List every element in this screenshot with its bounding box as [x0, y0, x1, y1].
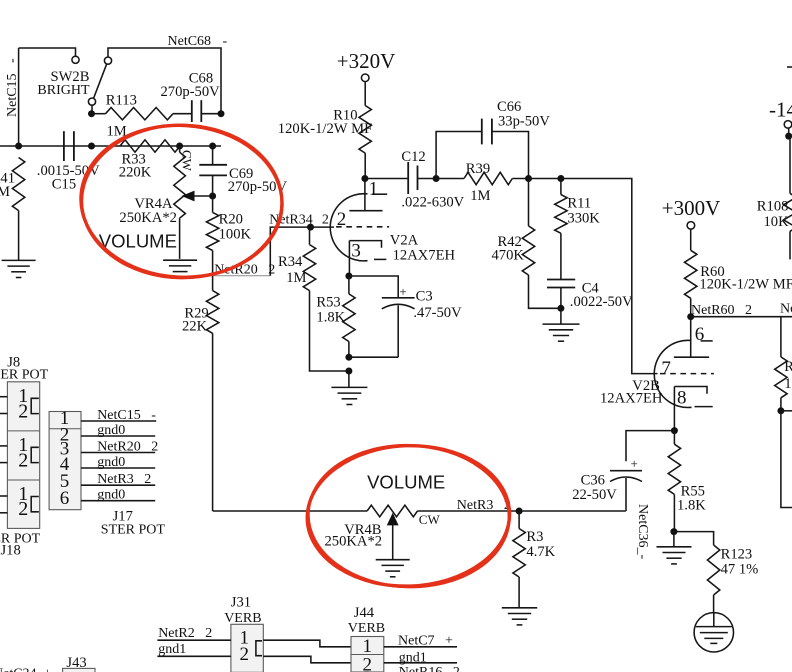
tube V2A plate pin 1: [364, 179, 366, 211]
svg-text:R39: R39: [466, 161, 490, 177]
tube V2A envelope dash top: [372, 193, 387, 195]
ground: [673, 532, 675, 547]
svg-text:.022-630V: .022-630V: [401, 195, 464, 211]
svg-text:.47-50V: .47-50V: [413, 305, 462, 321]
svg-text:33p-50V: 33p-50V: [498, 114, 550, 130]
ground: [163, 259, 197, 261]
J8 pin wires: [0, 396, 7, 398]
svg-text:C3: C3: [416, 288, 433, 304]
J31 pin wires left: [157, 639, 231, 641]
node junction: [557, 305, 564, 312]
svg-text:NetC15 -: NetC15 -: [97, 408, 156, 423]
node junction: [209, 143, 216, 150]
svg-text:NetR3 2: NetR3 2: [97, 472, 151, 487]
svg-text:R113: R113: [106, 93, 137, 109]
svg-text:C12: C12: [401, 149, 425, 165]
resistor R29: [206, 291, 218, 334]
svg-text:+: +: [631, 456, 638, 471]
wire: [91, 105, 93, 114]
svg-text:NetC34 +: NetC34 +: [0, 667, 52, 672]
resistor R123: [674, 532, 714, 545]
J8 pin bracket 1: [31, 398, 39, 413]
tube V2B envelope: [654, 340, 691, 407]
switch SW2B lever: [94, 64, 107, 98]
node junction: [557, 175, 564, 182]
svg-text:R12: R12: [784, 359, 792, 375]
terminal circle: [784, 121, 792, 129]
node junction: [209, 193, 216, 200]
svg-text:6: 6: [695, 324, 705, 345]
svg-text:gnd1: gnd1: [158, 642, 186, 657]
wire: [108, 48, 221, 114]
svg-text:R3: R3: [526, 529, 543, 545]
svg-text:J18: J18: [1, 542, 21, 558]
svg-text:270p-50V: 270p-50V: [161, 84, 221, 100]
node junction: [785, 133, 792, 140]
wire: [529, 178, 561, 180]
svg-text:1.8K: 1.8K: [316, 310, 345, 326]
tube V2A envelope dash bottom: [374, 258, 386, 260]
switch SW2B terminal A: [72, 56, 79, 63]
svg-text:CW: CW: [419, 512, 441, 527]
svg-text:V2A: V2A: [390, 233, 419, 249]
wire: [781, 411, 792, 508]
connector J31 box: [231, 624, 263, 672]
tube V2A envelope: [330, 194, 367, 261]
resistor R53: [348, 276, 350, 294]
tube V2B envelope dash top: [701, 340, 713, 342]
svg-text:R11: R11: [567, 196, 591, 212]
J17 pin wires: [81, 420, 156, 422]
svg-text:470K: 470K: [492, 248, 525, 264]
svg-text:R34: R34: [278, 254, 303, 270]
J44 pin wires right: [384, 646, 457, 648]
svg-text:2: 2: [18, 498, 28, 520]
node junction: [525, 175, 532, 182]
tube V2B grid dashed: [660, 373, 714, 375]
red ellipse around VR4B: [305, 442, 512, 589]
svg-text:NetR2 2: NetR2 2: [158, 626, 212, 641]
node junction: [670, 528, 677, 535]
svg-text:NetR20 2: NetR20 2: [97, 439, 158, 454]
J31 pin wires right: [263, 640, 351, 647]
svg-text:250KA*2: 250KA*2: [119, 210, 177, 226]
resistor R10: [364, 82, 366, 106]
svg-text:220K: 220K: [119, 165, 152, 181]
wire stub: [781, 410, 792, 412]
node junction: [88, 110, 95, 117]
node junction: [15, 143, 22, 150]
potentiometer VR4A body: [174, 152, 186, 218]
svg-text:10: 10: [784, 376, 792, 392]
ground: [376, 559, 410, 561]
wire: [18, 48, 20, 146]
capacitor C3: [349, 276, 398, 298]
svg-text:C15: C15: [52, 176, 76, 192]
ground: [348, 371, 350, 387]
svg-text:NetC68: NetC68: [168, 34, 212, 49]
capacitor C12: [407, 162, 409, 194]
svg-text:NetC7 +: NetC7 +: [398, 634, 453, 649]
node junction: [777, 407, 784, 414]
wire stub top right: [787, 66, 792, 68]
ground: [502, 607, 537, 609]
node junction: [433, 175, 440, 182]
switch SW2B wiper terminal: [88, 98, 95, 105]
node junction: [345, 368, 352, 375]
capacitor C4: [547, 279, 575, 281]
svg-text:2: 2: [18, 400, 28, 422]
connector J17 box: [49, 412, 81, 510]
capacitor C66: [481, 119, 483, 145]
svg-text:100K: 100K: [219, 226, 252, 242]
svg-text:gnd0: gnd0: [97, 488, 125, 503]
resistor R60: [690, 229, 692, 250]
wire cathode: [673, 387, 675, 431]
capacitor C36: [610, 470, 642, 472]
node junction: [345, 273, 352, 280]
svg-text:6: 6: [60, 488, 70, 509]
wire to V2A grid: [270, 227, 310, 276]
svg-text:BRIGHT: BRIGHT: [37, 83, 90, 98]
svg-text:-: -: [223, 34, 228, 49]
resistor R108: [788, 128, 790, 136]
node junction: [671, 427, 678, 434]
svg-text:22K: 22K: [182, 319, 208, 335]
svg-text:1M: 1M: [286, 270, 306, 286]
svg-text:NetR16 2: NetR16 2: [399, 665, 460, 672]
wire net stub gray: [213, 275, 270, 277]
resistor R113: [92, 113, 106, 115]
tube V2A grid dashed: [336, 226, 389, 228]
svg-text:3: 3: [362, 668, 372, 672]
svg-text:2: 2: [337, 209, 347, 230]
node junction: [516, 508, 523, 515]
svg-text:2: 2: [18, 449, 28, 471]
node junction: [218, 110, 225, 117]
svg-text:47 1%: 47 1%: [721, 561, 759, 577]
svg-text:.0022-50V: .0022-50V: [570, 294, 633, 310]
svg-text:12AX7EH: 12AX7EH: [393, 248, 456, 264]
capacitor C68: [191, 100, 193, 122]
svg-text:NetC36_-: NetC36_-: [635, 504, 650, 560]
node junction: [687, 313, 694, 320]
capacitor C69: [212, 146, 214, 165]
wire main input: [0, 145, 221, 147]
svg-text:R53: R53: [316, 294, 340, 310]
connector J8 box: [7, 382, 39, 529]
J8 pin bracket 2: [31, 447, 39, 462]
resistor R41: [12, 158, 24, 211]
terminal circle: [687, 222, 695, 230]
svg-text:NetC15 -: NetC15 -: [5, 58, 20, 117]
svg-text:4.7K: 4.7K: [526, 544, 555, 560]
svg-text:1.8K: 1.8K: [677, 498, 706, 514]
resistor R1xx right edge: [780, 317, 782, 357]
svg-text:120K-1/2W MF: 120K-1/2W MF: [699, 276, 792, 292]
wire grid: [311, 226, 335, 228]
resistor R42: [528, 179, 530, 226]
VR4B wiper arrow: [387, 513, 399, 526]
capacitor C15: [63, 131, 65, 161]
svg-text:gnd0: gnd0: [97, 423, 125, 438]
svg-text:NetR60 2: NetR60 2: [691, 303, 752, 318]
potentiometer VR4B body: [367, 505, 417, 517]
svg-text:gnd1: gnd1: [399, 650, 427, 665]
switch SW2B terminal B: [104, 57, 111, 64]
tube V2A cathode pin 3: [349, 241, 381, 248]
node junction: [176, 143, 183, 150]
svg-text:NetR: NetR: [780, 301, 792, 316]
wire: [691, 316, 792, 318]
svg-text:J44: J44: [354, 605, 375, 621]
svg-text:1M: 1M: [0, 184, 10, 200]
svg-text:+300V: +300V: [662, 196, 721, 220]
svg-text:VOLUME: VOLUME: [99, 230, 177, 251]
svg-text:8: 8: [677, 388, 687, 409]
svg-text:R20: R20: [219, 211, 243, 227]
J8 pin bracket 3: [31, 497, 39, 512]
svg-text:STER POT: STER POT: [0, 367, 49, 382]
tube V2B envelope dash bottom: [695, 406, 713, 408]
svg-text:+320V: +320V: [337, 49, 396, 73]
red circle around VR4A: [77, 120, 286, 282]
svg-text:10K: 10K: [764, 214, 790, 230]
tube V2B plate pin 6: [690, 317, 692, 358]
VR4A wiper arrow: [182, 191, 195, 202]
ground: [560, 308, 562, 324]
svg-text:NetR3 2: NetR3 2: [457, 498, 511, 513]
resistor R11: [560, 179, 562, 195]
tube V2B cathode pin 8: [674, 387, 707, 394]
resistor R55: [673, 431, 675, 445]
svg-text:120K-1/2W MF: 120K-1/2W MF: [278, 121, 372, 137]
connector J44 box: [351, 637, 384, 672]
svg-text:1M: 1M: [470, 188, 490, 204]
J31 pin bracket: [256, 641, 262, 656]
svg-text:250KA*2: 250KA*2: [325, 533, 383, 549]
svg-text:CW: CW: [179, 150, 194, 172]
node junction: [88, 143, 95, 150]
svg-text:gnd0: gnd0: [97, 455, 125, 470]
wire to V2B grid: [561, 179, 658, 374]
svg-text:1: 1: [369, 179, 379, 200]
connector J43 box (clipped): [63, 668, 95, 672]
svg-text:2: 2: [240, 644, 250, 665]
node junction: [307, 224, 314, 231]
svg-text:2: 2: [322, 212, 329, 227]
svg-text:7: 7: [661, 358, 671, 379]
node junction: [361, 175, 368, 182]
resistor R39: [436, 178, 464, 180]
resistor R20: [212, 196, 214, 212]
wire: [626, 431, 674, 462]
svg-text:VOLUME: VOLUME: [367, 471, 445, 492]
wire: [365, 178, 408, 180]
resistor R34: [309, 227, 311, 245]
svg-text:+: +: [399, 284, 406, 299]
node junction: [345, 354, 352, 361]
svg-text:R108: R108: [757, 198, 789, 214]
svg-text:STER POT: STER POT: [101, 523, 166, 538]
svg-text:J31: J31: [231, 594, 251, 610]
svg-text:3: 3: [351, 240, 361, 261]
svg-text:-140: -140: [769, 97, 792, 121]
svg-text:C66: C66: [497, 99, 521, 115]
wire cathode: [348, 241, 350, 276]
terminal circle: [361, 74, 369, 82]
wire C66 branch: [436, 132, 482, 179]
svg-text:12AX7EH: 12AX7EH: [600, 390, 663, 406]
svg-text:22-50V: 22-50V: [572, 487, 617, 503]
svg-text:330K: 330K: [567, 211, 600, 227]
earth ground: [694, 613, 733, 652]
svg-text:R123: R123: [721, 546, 753, 562]
resistor R33: [120, 140, 180, 152]
resistor R3: [518, 511, 520, 529]
svg-text:VERB: VERB: [348, 621, 385, 636]
ground: [2, 259, 36, 261]
wire bottom net: [213, 510, 368, 512]
